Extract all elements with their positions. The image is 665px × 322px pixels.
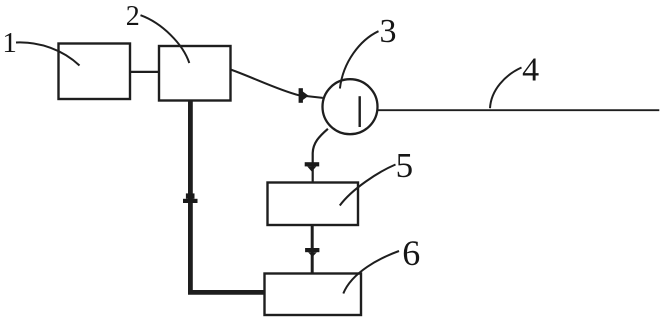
wire 4 (output line) bbox=[378, 109, 660, 111]
arrow on wire box2-valve (points right) bbox=[299, 88, 303, 103]
leader line 5 bbox=[340, 165, 396, 206]
wire valve to box 5 bbox=[313, 129, 328, 183]
valve inner line bbox=[359, 96, 361, 127]
svg-text:4: 4 bbox=[522, 51, 539, 88]
svg-text:1: 1 bbox=[2, 27, 17, 59]
box 6 bbox=[265, 274, 362, 316]
wire box5 to box6 bbox=[311, 225, 314, 274]
arrow on wire box5-box6 (points down) bbox=[305, 248, 319, 252]
wire box2 to valve 3 bbox=[231, 70, 323, 98]
box 5 bbox=[268, 183, 359, 226]
svg-text:6: 6 bbox=[402, 233, 420, 273]
leader line 2 bbox=[141, 15, 190, 63]
box 1 bbox=[59, 44, 131, 100]
svg-text:2: 2 bbox=[126, 1, 140, 32]
box 2 bbox=[159, 46, 231, 101]
thick wire box2 down and into box6 bbox=[190, 101, 263, 293]
leader line 6 bbox=[343, 251, 399, 294]
valve circle 3 bbox=[323, 79, 378, 134]
arrow on thick wire (points down) bbox=[186, 193, 195, 198]
wire box1-box2 bbox=[130, 71, 159, 73]
leader line 1 bbox=[16, 42, 80, 65]
arrow on wire valve-box5 (points down) bbox=[305, 162, 320, 166]
leader line 4 bbox=[490, 68, 522, 109]
leader line 3 bbox=[340, 31, 379, 88]
svg-text:5: 5 bbox=[396, 146, 414, 185]
svg-text:3: 3 bbox=[380, 13, 397, 50]
